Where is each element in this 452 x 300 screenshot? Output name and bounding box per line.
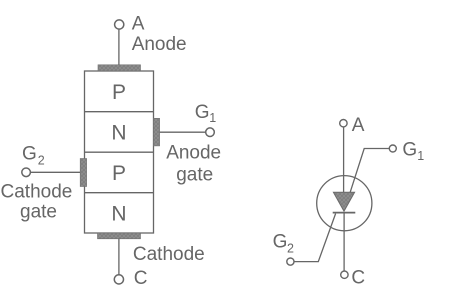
svg-text:G: G xyxy=(273,231,288,252)
svg-text:2: 2 xyxy=(287,241,294,255)
svg-text:Cathode: Cathode xyxy=(133,244,205,265)
svg-text:gate: gate xyxy=(176,164,213,185)
svg-text:1: 1 xyxy=(209,111,216,125)
svg-text:Anode: Anode xyxy=(132,34,187,55)
svg-text:gate: gate xyxy=(20,201,57,222)
svg-text:P: P xyxy=(112,162,126,185)
svg-text:2: 2 xyxy=(38,153,45,167)
svg-text:G: G xyxy=(22,143,37,164)
svg-text:A: A xyxy=(352,115,365,136)
svg-text:A: A xyxy=(132,13,145,34)
svg-text:Anode: Anode xyxy=(166,142,221,163)
svg-text:C: C xyxy=(351,267,365,288)
svg-text:1: 1 xyxy=(417,149,424,163)
svg-text:C: C xyxy=(134,268,148,289)
svg-text:G: G xyxy=(402,139,417,160)
svg-text:P: P xyxy=(112,81,126,104)
svg-text:Cathode: Cathode xyxy=(1,182,73,203)
svg-text:N: N xyxy=(111,202,126,225)
svg-text:N: N xyxy=(111,121,126,144)
svg-text:G: G xyxy=(195,102,210,123)
